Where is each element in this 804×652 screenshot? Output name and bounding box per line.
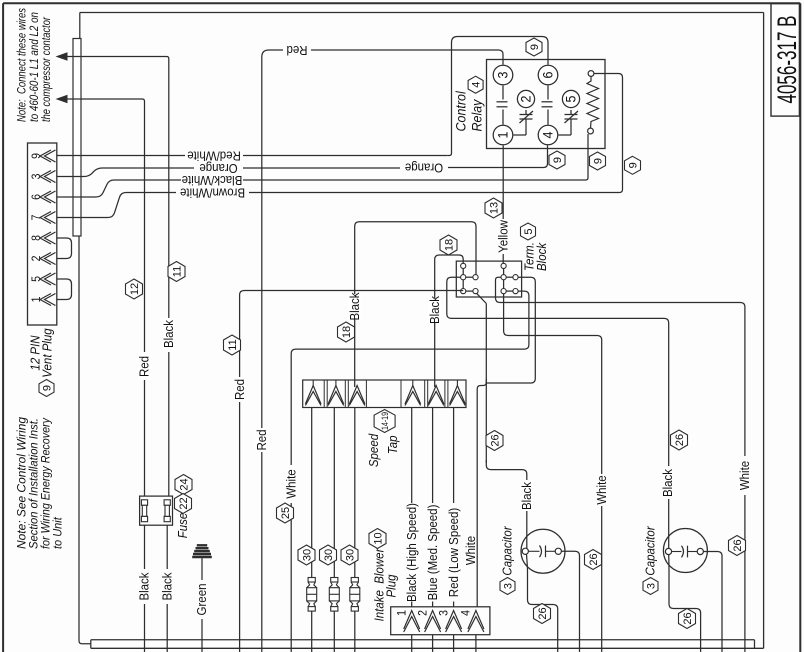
- svg-text:Note: See Control Wiring: Note: See Control Wiring: [16, 416, 29, 549]
- svg-text:4: 4: [460, 610, 473, 616]
- svg-text:Note: Connect these wires: Note: Connect these wires: [16, 8, 29, 122]
- svg-text:Relay: Relay: [469, 98, 485, 131]
- svg-text:to 460-60-1 L1 and L2 on: to 460-60-1 L1 and L2 on: [29, 12, 42, 122]
- intake blower plug: [391, 607, 490, 635]
- svg-text:the compressor contactor: the compressor contactor: [41, 16, 54, 122]
- svg-text:1: 1: [396, 610, 409, 616]
- svg-text:18: 18: [443, 239, 455, 251]
- svg-text:White: White: [463, 536, 478, 566]
- wire T3bot to cap1 white: [504, 294, 602, 474]
- hexagon 5 term block: [521, 223, 536, 240]
- speed tap lower wires to splices: [311, 408, 313, 578]
- svg-text:White: White: [284, 469, 299, 499]
- capacitor 1: [521, 529, 565, 573]
- svg-text:Brown/White: Brown/White: [180, 185, 245, 200]
- relay pin 1: [493, 125, 513, 145]
- NC contact under 5: [570, 110, 572, 115]
- coil top terminal: [588, 71, 594, 77]
- svg-text:Yellow: Yellow: [496, 220, 511, 253]
- speed tap contact chevron: [349, 386, 365, 405]
- terminal: [501, 263, 506, 268]
- hexagon 22: [175, 494, 192, 514]
- svg-text:4056-317 B: 4056-317 B: [772, 16, 802, 104]
- svg-text:Red: Red: [254, 429, 269, 450]
- svg-text:Black: Black: [137, 572, 152, 601]
- drawing inner frame: [80, 12, 764, 14]
- wire T4mid loop: [486, 277, 535, 383]
- cap2 right wire down: [703, 552, 722, 652]
- arrow to L1: [67, 56, 165, 58]
- svg-text:White: White: [738, 461, 753, 491]
- svg-text:for Wiring Energy Recovery: for Wiring Energy Recovery: [40, 417, 53, 549]
- splice connector: [351, 578, 358, 583]
- terminal: [461, 263, 466, 268]
- terminal: [461, 289, 466, 294]
- svg-text:14-19: 14-19: [380, 412, 390, 430]
- svg-text:13: 13: [488, 202, 500, 214]
- wire hex18 to T1top: [435, 255, 464, 387]
- wire Green: [201, 558, 203, 580]
- svg-text:6: 6: [540, 72, 556, 79]
- svg-text:25: 25: [280, 507, 292, 519]
- ground symbol: [197, 544, 207, 546]
- wire Red/White pin9: [57, 155, 185, 157]
- svg-text:Plug: Plug: [384, 574, 399, 597]
- svg-text:Black (High Speed): Black (High Speed): [404, 503, 419, 602]
- svg-text:3: 3: [645, 583, 657, 589]
- svg-text:26: 26: [732, 539, 744, 551]
- wire Brown/White pin7: [57, 193, 176, 218]
- svg-text:30: 30: [323, 549, 335, 561]
- 12 PIN vent plug: [28, 143, 57, 325]
- svg-text:10: 10: [372, 532, 384, 544]
- terminal block: [456, 261, 521, 297]
- svg-text:Black: Black: [660, 468, 675, 497]
- svg-text:9: 9: [592, 158, 604, 164]
- svg-text:9: 9: [529, 44, 541, 50]
- svg-text:2: 2: [518, 96, 534, 103]
- hexagon 26 cap1 right: [585, 550, 602, 570]
- label Red wire 261.8: [255, 428, 269, 452]
- svg-text:Fuse: Fuse: [176, 512, 191, 538]
- terminal: [473, 289, 478, 294]
- hexagon 11 low: [224, 335, 241, 355]
- terminal: [501, 289, 506, 294]
- jog to blower pin4: [477, 379, 486, 607]
- hexagon 9 pin4 wire: [549, 151, 565, 169]
- svg-text:White: White: [594, 475, 609, 505]
- hexagon 13: [485, 198, 502, 218]
- hexagon 26 cap2 right: [729, 536, 746, 556]
- svg-text:11: 11: [171, 266, 183, 277]
- terminal: [501, 275, 506, 280]
- wire bar bottom down left side: [79, 236, 91, 644]
- svg-text:30: 30: [344, 549, 356, 561]
- cap1 right wire down: [561, 551, 579, 652]
- svg-text:Green: Green: [195, 584, 210, 616]
- wire Red relay pin3 to left: [311, 50, 503, 65]
- hexagon 10: [369, 529, 386, 549]
- svg-text:Red: Red: [286, 43, 307, 58]
- svg-text:Black: Black: [427, 295, 442, 324]
- term block internal links: [462, 266, 464, 291]
- wire T1mid loop to cap2 black: [447, 277, 669, 466]
- splice connector: [308, 578, 315, 583]
- hexagon 3 cap2: [643, 578, 658, 595]
- capacitor 2: [663, 529, 707, 573]
- relay box: [487, 60, 606, 149]
- hexagon 14-19: [374, 410, 395, 433]
- svg-text:Tap: Tap: [386, 435, 401, 454]
- bottom bus bar: [91, 639, 755, 641]
- svg-text:Orange: Orange: [405, 160, 444, 175]
- svg-text:26: 26: [588, 553, 600, 565]
- svg-text:Capacitor: Capacitor: [500, 525, 515, 575]
- hexagon 4 control relay: [468, 76, 483, 93]
- svg-text:5: 5: [563, 96, 579, 103]
- wire Brown/White to coil top: [594, 74, 623, 193]
- wire 11 vertical: [165, 57, 169, 319]
- hexagon 25: [277, 503, 294, 523]
- relay pin 2: [517, 90, 534, 107]
- svg-text:Vent Plug: Vent Plug: [40, 328, 55, 378]
- svg-text:Black: Black: [161, 319, 176, 348]
- svg-text:Control: Control: [453, 90, 469, 131]
- svg-text:Red: Red: [137, 356, 152, 377]
- svg-text:22: 22: [178, 497, 190, 509]
- svg-text:24: 24: [178, 478, 190, 490]
- coil bottom terminal: [588, 128, 594, 134]
- cap1 left terminal: [522, 548, 528, 554]
- svg-text:9: 9: [552, 157, 564, 163]
- speed tap contact chevron: [428, 386, 444, 405]
- cap1 bottom wire: [527, 555, 558, 652]
- svg-text:Black: Black: [160, 572, 175, 601]
- terminal: [513, 289, 518, 294]
- title block 4056-317 B: [771, 4, 799, 117]
- hexagon 12: [126, 279, 143, 299]
- svg-text:3: 3: [438, 610, 451, 616]
- svg-text:Red: Red: [232, 379, 247, 400]
- speed tap contact chevron: [312, 380, 314, 387]
- wire RedWhite loop to relay pin6: [447, 37, 548, 156]
- L1/L2 contactor bus bar: [73, 39, 81, 237]
- speed tap contact chevron: [456, 380, 458, 387]
- hexagon 11 upper: [168, 262, 185, 282]
- hexagon 18 near term block: [440, 235, 457, 255]
- svg-text:4: 4: [471, 82, 483, 88]
- hexagon 26 cap1 feed: [486, 431, 503, 451]
- svg-text:Section of Installation Inst.: Section of Installation Inst.: [28, 418, 41, 549]
- svg-text:26: 26: [489, 434, 501, 446]
- hexagon 3 cap1: [500, 578, 515, 595]
- relay pin 3: [493, 65, 513, 85]
- svg-text:3: 3: [495, 72, 511, 79]
- jumper pins 8-2: [57, 238, 72, 259]
- speed tap contact chevron: [412, 380, 414, 387]
- terminal: [513, 275, 518, 280]
- arrow to L2: [67, 98, 141, 100]
- blower feed wires: [411, 408, 413, 504]
- svg-text:Blue (Med. Speed): Blue (Med. Speed): [425, 505, 440, 601]
- hexagon 9 coil top wire: [625, 156, 641, 174]
- hexagon 30 c: [341, 545, 358, 565]
- fuse block: [140, 496, 173, 525]
- hexagon 18 speed tap: [338, 322, 355, 342]
- speed tap assembly: [303, 380, 466, 408]
- svg-text:30: 30: [301, 549, 313, 561]
- wire T4bot to White wire: [291, 291, 529, 465]
- svg-text:Capacitor: Capacitor: [643, 525, 658, 575]
- relay pin 5: [562, 90, 579, 107]
- svg-text:Red (Low Speed): Red (Low Speed): [446, 508, 461, 597]
- NO contact 6-4: [542, 101, 553, 103]
- wire Yellow relay1 to term block: [502, 146, 504, 220]
- cap2 bottom wire: [669, 555, 701, 652]
- relay internal wires: [502, 86, 504, 100]
- hexagon 26 cap1 bottom: [534, 604, 551, 624]
- relay coil resistor: [587, 77, 599, 129]
- terminal: [473, 275, 478, 280]
- svg-text:Black: Black: [519, 481, 534, 510]
- svg-text:18: 18: [341, 326, 353, 338]
- svg-text:26: 26: [537, 607, 549, 619]
- wire T2bot to pin4 white / cap1 black: [477, 293, 487, 303]
- svg-text:Block: Block: [535, 242, 550, 271]
- jumper pins 5-1: [57, 279, 72, 300]
- fuse lower wires: [144, 525, 146, 569]
- hexagon 9 vent plug: [39, 380, 54, 397]
- splice connector: [331, 578, 338, 583]
- wire T1bot to Red: [240, 291, 464, 378]
- svg-text:4: 4: [540, 132, 556, 139]
- svg-text:Black: Black: [347, 292, 362, 321]
- hexagon 24: [175, 475, 192, 495]
- svg-text:26: 26: [674, 434, 686, 446]
- wire bar top to frame: [79, 13, 81, 39]
- hexagon 9 relay top: [526, 38, 542, 56]
- wire Orange pin3: [57, 168, 194, 177]
- svg-text:12: 12: [129, 283, 141, 295]
- svg-text:9: 9: [41, 385, 53, 391]
- wire Black/White pin6: [57, 180, 181, 197]
- relay pin 4: [538, 125, 558, 145]
- svg-text:9: 9: [627, 162, 639, 168]
- hexagon 30 b: [320, 545, 337, 565]
- wire Black/White to coil bottom: [584, 134, 589, 180]
- hexagon 26 cap2 feed: [671, 430, 688, 450]
- NC contact under 2: [525, 110, 527, 115]
- hexagon 26 cap2 bottom: [679, 609, 696, 629]
- cap1 right terminal: [555, 548, 561, 554]
- speed tap contact chevron: [335, 380, 337, 387]
- wire 12 vertical: [140, 99, 145, 353]
- page outer border: [2, 3, 4, 652]
- svg-text:Speed: Speed: [367, 433, 382, 467]
- cap2 left terminal: [665, 548, 671, 554]
- svg-text:3: 3: [502, 583, 514, 589]
- hexagon 30 a: [298, 545, 315, 565]
- svg-text:1: 1: [495, 132, 511, 139]
- NO contact 3-1: [497, 101, 508, 103]
- wire T3mid to cap2 white: [496, 277, 745, 456]
- svg-text:11: 11: [227, 339, 239, 350]
- svg-text:2: 2: [417, 610, 430, 616]
- svg-text:5: 5: [523, 228, 535, 234]
- cap2 right terminal: [697, 548, 703, 554]
- svg-text:to Unit: to Unit: [52, 516, 65, 549]
- terminal: [461, 275, 466, 280]
- svg-text:26: 26: [682, 612, 694, 624]
- wire speed tap 3L to T2mid: [355, 222, 476, 387]
- hexagon 9 coil bottom wire: [590, 152, 606, 170]
- wire Orange to relay pin4: [540, 146, 548, 168]
- relay pin 6: [538, 65, 558, 85]
